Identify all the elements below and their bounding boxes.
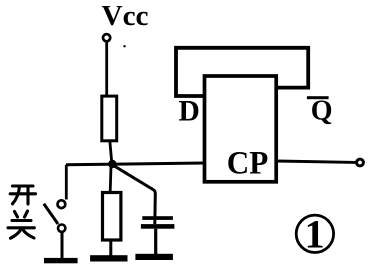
- ground for C1: [135, 254, 173, 260]
- output terminal: [357, 159, 364, 166]
- wire down to switch: [65, 165, 68, 200]
- svg-text:Q: Q: [311, 96, 333, 127]
- capacitor C1 bottom plate: [141, 224, 175, 229]
- wire C1 to ground: [154, 229, 157, 255]
- label 开: [10, 186, 35, 204]
- svg-text:CP: CP: [227, 146, 268, 182]
- wire switch to ground: [61, 233, 64, 259]
- resistor R1: [102, 96, 117, 141]
- ground for switch: [44, 258, 78, 263]
- switch S1 upper contact: [58, 200, 66, 208]
- ground for R2: [90, 255, 127, 261]
- wire CP output: [276, 161, 356, 162]
- node A junction dot: [108, 160, 116, 168]
- svg-text:D: D: [179, 95, 200, 127]
- flip-flop U1 box: [205, 76, 277, 182]
- switch S1 arm: [44, 204, 58, 224]
- Vcc terminal: [103, 34, 110, 41]
- figure number 1 circle: [296, 215, 333, 252]
- speck: [123, 45, 125, 47]
- wire Vcc to R1: [105, 43, 108, 97]
- switch S1 lower contact: [58, 225, 65, 232]
- label Qbar overline: [307, 96, 329, 99]
- wire main horizontal to CP input: [66, 163, 205, 165]
- wire node A diagonal to C1: [114, 166, 156, 225]
- label 关: [8, 211, 34, 238]
- feedback wire Qbar to D: [176, 48, 308, 96]
- capacitor C1 top plate: [142, 216, 173, 220]
- wire R1 to node A: [110, 141, 112, 164]
- wire node A to R2: [109, 166, 113, 192]
- resistor R2: [103, 193, 121, 241]
- svg-text:1: 1: [305, 212, 325, 257]
- svg-text:Vcc: Vcc: [102, 1, 149, 32]
- wire R2 to ground: [109, 240, 112, 256]
